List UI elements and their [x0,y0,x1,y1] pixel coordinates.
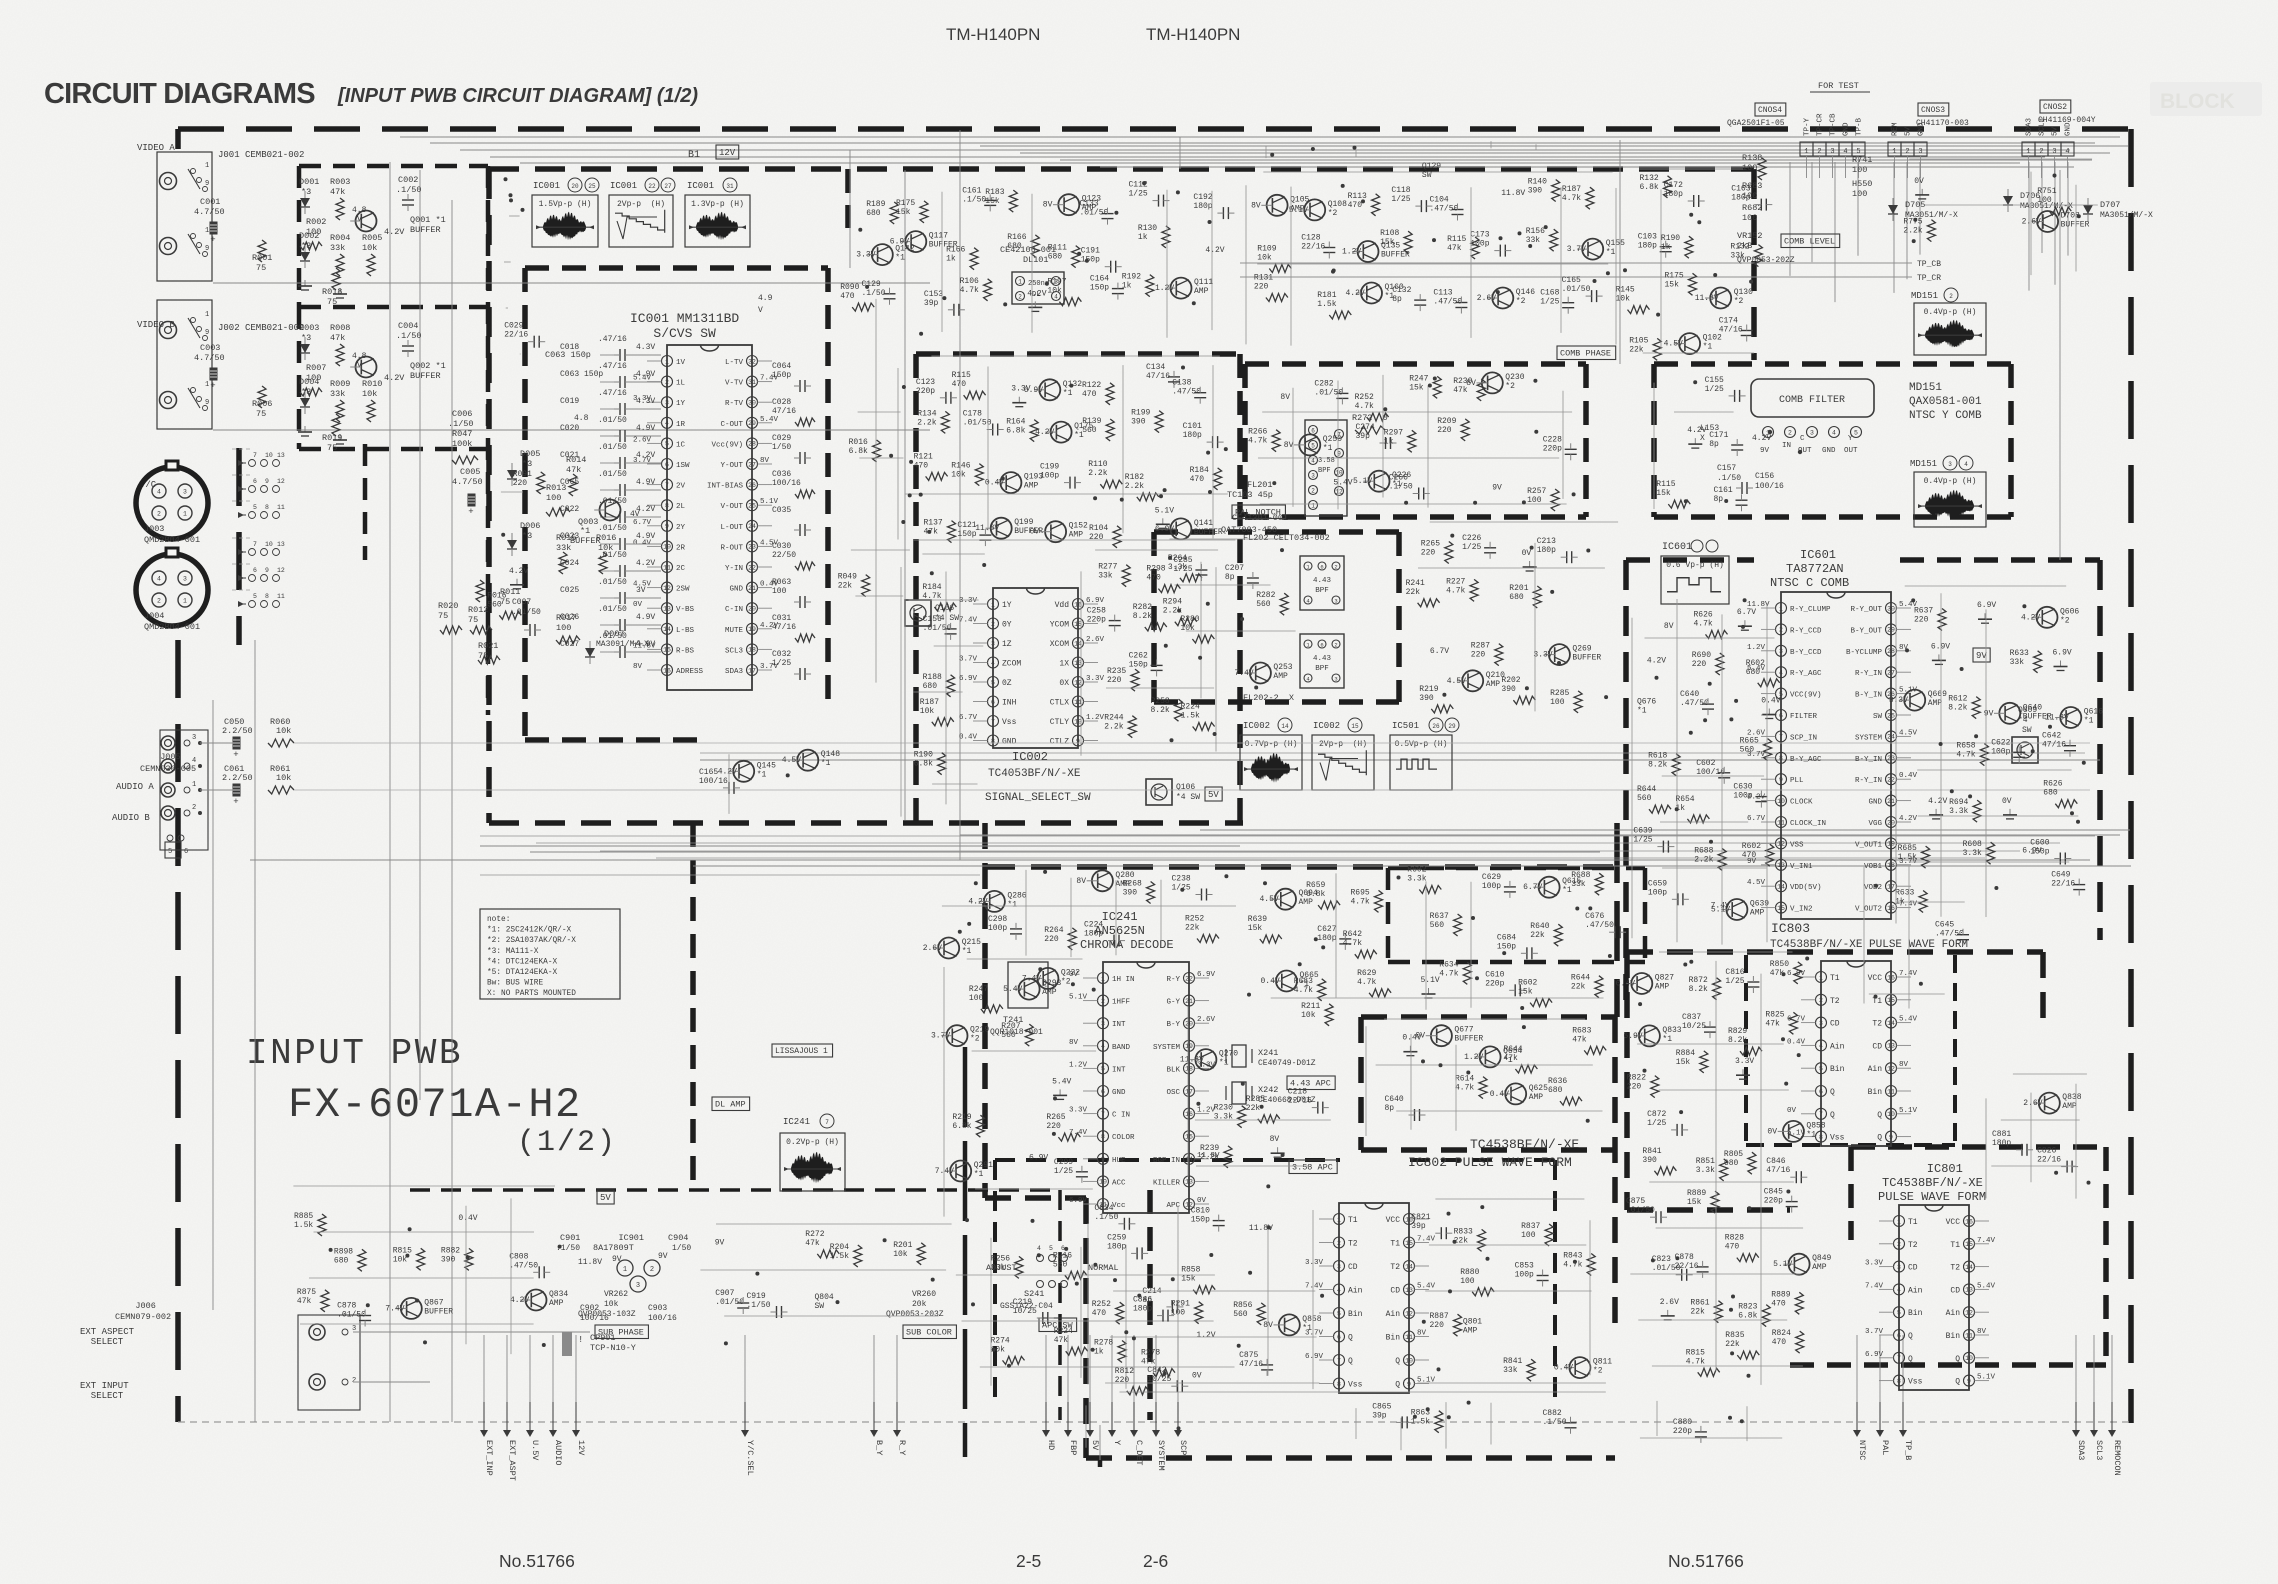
svg-text:4: 4 [2065,148,2069,156]
svg-text:Vcc(9V): Vcc(9V) [711,441,743,449]
svg-text:4.5V: 4.5V [1747,879,1766,887]
svg-text:R131: R131 [1254,274,1273,283]
svg-text:4.5V: 4.5V [1447,677,1466,686]
svg-text:2Y: 2Y [676,524,686,532]
svg-text:Q: Q [1395,1381,1400,1390]
svg-text:R137: R137 [924,519,943,528]
svg-text:10k: 10k [362,389,377,399]
svg-text:75: 75 [256,263,266,273]
svg-text:6: 6 [1311,427,1315,434]
svg-text:8.2k: 8.2k [1648,761,1667,770]
svg-text:4.5V: 4.5V [782,756,801,765]
svg-text:4.9V: 4.9V [636,613,655,622]
svg-text:C002: C002 [398,175,418,185]
svg-text:100: 100 [1852,189,1867,199]
svg-text:4.7/50: 4.7/50 [194,353,225,363]
svg-text:680: 680 [1548,1086,1563,1095]
svg-text:MD151: MD151 [1911,291,1938,301]
svg-text:CLOCK: CLOCK [1790,799,1813,807]
svg-text:680: 680 [2043,789,2058,798]
svg-text:3: 3 [1819,1020,1823,1027]
svg-text:Bin: Bin [1908,1309,1923,1318]
svg-text:2C: 2C [676,565,686,573]
svg-text:HD: HD [1046,1440,1056,1450]
svg-text:R297: R297 [1384,428,1403,437]
svg-text:19: 19 [1887,841,1895,848]
svg-text:5.4V: 5.4V [1052,1077,1071,1086]
svg-text:5.4V: 5.4V [1003,985,1022,994]
svg-text:AUDIO A: AUDIO A [116,782,154,792]
svg-text:C640: C640 [1385,1095,1404,1104]
svg-text:3.7V: 3.7V [1567,245,1586,254]
svg-text:.01/50: .01/50 [1562,285,1591,294]
svg-text:8.2k: 8.2k [1689,985,1708,994]
svg-text:8: 8 [665,503,669,510]
svg-text:D002: D002 [299,231,319,241]
svg-text:22k: 22k [1406,588,1421,597]
svg-text:8V: 8V [1251,201,1261,210]
svg-text:+: + [233,750,238,760]
svg-text:75: 75 [468,615,478,625]
svg-text:R775: R775 [1903,218,1922,227]
svg-text:OSC: OSC [1166,1089,1180,1097]
svg-text:Vdd: Vdd [1055,601,1070,610]
svg-text:.47/50: .47/50 [1585,921,1614,930]
svg-text:R121: R121 [914,452,933,461]
svg-text:Q838: Q838 [2062,1093,2081,1102]
svg-text:R166: R166 [1007,233,1026,242]
svg-text:29: 29 [1887,627,1895,634]
svg-text:11.8V: 11.8V [2045,714,2069,723]
svg-text:Q606: Q606 [2060,607,2079,616]
svg-text:Q117: Q117 [929,232,948,241]
svg-text:1: 1 [1892,148,1896,156]
svg-text:7: 7 [665,482,669,489]
svg-text:R889: R889 [1687,1189,1706,1198]
svg-text:*2: *2 [1328,209,1338,218]
svg-text:Q: Q [1395,1357,1400,1366]
svg-text:R252: R252 [1092,1300,1111,1309]
svg-text:3.7V: 3.7V [959,656,978,664]
svg-text:IC002: IC002 [1313,721,1340,731]
svg-text:R272: R272 [805,1230,824,1239]
svg-text:R614: R614 [1455,1075,1474,1084]
svg-text:R007: R007 [306,363,326,373]
svg-text:1.5k: 1.5k [1898,853,1917,862]
svg-text:C659: C659 [1648,879,1667,888]
svg-text:C132: C132 [1392,286,1411,295]
svg-text:2.6V: 2.6V [1086,636,1105,644]
svg-text:R751: R751 [2037,187,2056,196]
svg-text:Q834: Q834 [549,1290,568,1299]
svg-text:R644: R644 [1571,974,1590,983]
svg-text:C006: C006 [452,409,472,419]
svg-text:2-5: 2-5 [1016,1551,1041,1571]
svg-text:R002: R002 [306,217,326,227]
svg-text:No.51766: No.51766 [499,1551,575,1571]
svg-text:100: 100 [969,994,984,1003]
svg-text:*3: *3 [301,187,311,197]
svg-text:KILLER: KILLER [1153,1179,1181,1187]
svg-text:8V: 8V [1076,877,1086,886]
svg-text:6.9V: 6.9V [1155,525,1174,534]
svg-text:FOR TEST: FOR TEST [1818,81,1859,91]
svg-text:R268: R268 [1123,880,1142,889]
svg-text:CTLY: CTLY [1050,718,1069,727]
svg-text:R047: R047 [452,429,472,439]
svg-text:12: 12 [1887,1066,1895,1073]
svg-text:Q215: Q215 [962,938,981,947]
svg-text:AUDIO: AUDIO [553,1440,563,1466]
svg-text:4.2V: 4.2V [1647,657,1666,666]
svg-text:C872: C872 [1647,1110,1666,1119]
svg-text:15: 15 [1887,997,1895,1004]
svg-text:R841: R841 [1503,1357,1522,1366]
svg-text:C063 150p: C063 150p [545,350,591,360]
svg-text:22: 22 [748,564,756,571]
svg-text:IC801: IC801 [1898,1162,1963,1176]
svg-text:OUT: OUT [1798,447,1812,455]
svg-text:SDA3: SDA3 [2076,1440,2086,1460]
svg-text:3.3V: 3.3V [1865,1260,1884,1268]
svg-text:R602: R602 [1407,866,1426,875]
svg-text:R694: R694 [1949,798,1968,807]
svg-text:4.2V: 4.2V [1205,246,1224,255]
svg-text:75: 75 [327,297,337,307]
svg-text:33k: 33k [991,1263,1006,1272]
svg-text:15k: 15k [1409,383,1424,392]
svg-text:100: 100 [556,623,571,633]
svg-text:Q801: Q801 [1463,1318,1482,1327]
svg-text:R629: R629 [1357,969,1376,978]
svg-text:100: 100 [1460,1277,1475,1286]
svg-text:7.4V: 7.4V [1022,974,1041,983]
svg-text:3.3k: 3.3k [1407,875,1426,884]
svg-text:10: 10 [1335,469,1343,476]
svg-text:4.7k: 4.7k [1355,402,1374,411]
svg-text:MA3051/M/-X: MA3051/M/-X [2100,211,2153,220]
svg-text:39p: 39p [924,299,939,308]
svg-text:COMB LEVEL: COMB LEVEL [1784,237,1835,247]
svg-text:4V: 4V [630,510,640,519]
svg-text:R188: R188 [923,673,942,682]
svg-text:33k: 33k [2010,658,2025,667]
svg-text:INH: INH [1002,699,1017,708]
svg-text:R829: R829 [1728,1027,1747,1036]
svg-text:.47/50: .47/50 [509,1261,538,1270]
svg-text:14: 14 [663,626,671,633]
svg-text:4.7k: 4.7k [1248,437,1267,446]
svg-text:5.4V: 5.4V [1977,1282,1996,1290]
svg-text:R282: R282 [1133,603,1152,612]
svg-text:R685: R685 [1898,844,1917,853]
svg-text:R021: R021 [478,641,498,651]
svg-text:.01/50: .01/50 [1626,1206,1655,1215]
svg-text:HUE: HUE [1112,1157,1126,1165]
svg-text:26: 26 [748,482,756,489]
svg-text:AMP: AMP [1486,680,1501,689]
svg-text:9: 9 [1889,1134,1893,1141]
svg-text:470: 470 [1771,1299,1786,1308]
svg-text:3: 3 [1311,472,1315,479]
svg-text:5.1V: 5.1V [1711,906,1730,915]
svg-text:CEMN079-002: CEMN079-002 [115,1312,171,1322]
svg-text:15k: 15k [1676,1058,1691,1067]
svg-text:VOB1: VOB1 [1864,863,1883,871]
svg-text:9: 9 [1407,1381,1411,1388]
svg-text:EXT INPUT: EXT INPUT [80,1381,129,1391]
svg-text:.47/16: .47/16 [598,335,627,344]
svg-text:470: 470 [1742,851,1757,860]
svg-text:+: + [233,797,238,807]
svg-text:Q152: Q152 [1069,522,1088,531]
svg-text:220: 220 [513,479,528,488]
svg-text:1/50: 1/50 [672,1244,691,1253]
svg-text:R-Y: R-Y [1166,976,1180,984]
svg-text:470: 470 [1725,1243,1740,1252]
svg-text:R683: R683 [1572,1026,1591,1035]
svg-text:EXT_INP: EXT_INP [484,1440,494,1476]
svg-text:2: 2 [1101,998,1105,1005]
svg-text:R872: R872 [1689,976,1708,985]
svg-text:IC901: IC901 [593,1233,644,1243]
svg-text:GND: GND [1002,738,1017,747]
svg-text:R202: R202 [1501,676,1520,685]
svg-text:6.9V: 6.9V [1024,386,1043,395]
svg-text:2: 2 [1018,293,1022,300]
svg-text:CNOS2: CNOS2 [2043,103,2067,112]
svg-text:1H IN: 1H IN [1112,976,1135,984]
svg-text:4.2V: 4.2V [718,767,737,776]
svg-text:4.43: 4.43 [1313,577,1332,585]
svg-text:47k: 47k [805,1239,820,1248]
svg-text:23: 23 [748,544,756,551]
svg-text:4.7k: 4.7k [1694,619,1713,628]
svg-text:150p: 150p [957,530,976,539]
svg-text:C019: C019 [560,397,579,406]
svg-text:C853: C853 [1515,1262,1534,1271]
svg-text:C610: C610 [1485,970,1504,979]
svg-text:6: 6 [1320,641,1323,648]
svg-text:R224: R224 [1181,703,1200,712]
svg-text:6.9V: 6.9V [890,238,909,247]
svg-text:7: 7 [1897,1355,1901,1362]
svg-text:28: 28 [748,441,756,448]
svg-text:6.8k: 6.8k [1738,1312,1757,1321]
svg-text:R-Y_OUT: R-Y_OUT [1850,606,1882,614]
svg-text:8.2k: 8.2k [1133,612,1152,621]
svg-text:220: 220 [1430,1321,1445,1330]
svg-text:1Y: 1Y [676,400,686,408]
svg-text:4: 4 [1101,1043,1105,1050]
svg-text:19: 19 [1185,1043,1193,1050]
svg-text:C123: C123 [916,378,935,387]
svg-text:1.5k: 1.5k [1317,300,1336,309]
svg-text:3.7V: 3.7V [1865,1328,1884,1336]
svg-text:D001: D001 [299,177,319,187]
svg-text:100p: 100p [1648,888,1667,897]
svg-text:B-Y_IN: B-Y_IN [1855,692,1882,700]
svg-text:CHROMA DECODE: CHROMA DECODE [1080,938,1174,952]
svg-text:R695: R695 [1351,888,1370,897]
svg-text:V_IN2: V_IN2 [1790,906,1813,914]
svg-text:4.2V: 4.2V [968,897,987,906]
svg-text:.1/50: .1/50 [396,331,422,341]
svg-text:4.7k: 4.7k [1351,897,1370,906]
svg-text:FILTER: FILTER [1790,713,1818,721]
svg-text:R634: R634 [1439,960,1458,969]
svg-text:5.1V: 5.1V [1289,206,1308,215]
svg-text:R016: R016 [849,438,868,447]
svg-text:5: 5 [1337,1310,1341,1317]
svg-text:11: 11 [1405,1334,1413,1341]
svg-text:560: 560 [1256,600,1271,609]
svg-text:C821: C821 [1411,1213,1430,1222]
svg-text:VCC(9V): VCC(9V) [1790,692,1822,700]
svg-text:0.4V: 0.4V [959,734,978,742]
svg-text:6.8k: 6.8k [914,760,933,769]
svg-text:*1: *1 [1302,1324,1312,1333]
svg-text:9: 9 [265,478,269,485]
svg-text:R182: R182 [1125,473,1144,482]
svg-text:100/16: 100/16 [699,777,728,786]
svg-text:7: 7 [1819,1111,1823,1118]
svg-text:R192: R192 [1122,273,1141,282]
svg-text:COMB PHASE: COMB PHASE [1560,349,1611,359]
svg-text:R132: R132 [1640,174,1659,183]
svg-text:R184: R184 [922,583,941,592]
svg-text:BUFFER: BUFFER [410,225,441,235]
svg-text:Q827: Q827 [1655,974,1674,983]
svg-text:22/16: 22/16 [2037,1156,2061,1165]
svg-text:Y: Y [1848,435,1853,443]
svg-text:Q106: Q106 [1176,783,1195,792]
svg-text:2SW: 2SW [676,586,690,594]
svg-text:3: 3 [636,1282,640,1290]
svg-text:2: 2 [157,598,161,605]
svg-text:.01/50: .01/50 [598,524,627,533]
svg-text:QVP0053-203Z: QVP0053-203Z [886,1310,944,1319]
svg-text:Q155: Q155 [1606,239,1625,248]
svg-text:[INPUT PWB CIRCUIT DIAGRAM] (1: [INPUT PWB CIRCUIT DIAGRAM] (1/2) [337,85,698,107]
svg-text:3: 3 [1337,1263,1341,1270]
svg-text:R264: R264 [1044,926,1063,935]
svg-text:J003: J003 [144,524,164,534]
svg-text:C630: C630 [1733,783,1752,792]
svg-text:D705: D705 [1905,200,1925,210]
svg-text:11.8V: 11.8V [1695,294,1719,303]
svg-text:150p: 150p [1129,660,1148,669]
svg-text:1k: 1k [1138,233,1148,242]
svg-text:3: 3 [1779,648,1783,655]
svg-text:14: 14 [1777,884,1785,891]
svg-text:0V: 0V [2002,797,2012,806]
svg-text:R887: R887 [1430,1312,1449,1321]
svg-text:*1: *1 [1606,248,1616,257]
svg-text:100p: 100p [1040,472,1059,481]
svg-text:220: 220 [1471,651,1486,660]
svg-text:C028: C028 [772,398,791,407]
svg-text:47/16: 47/16 [2042,741,2066,750]
svg-text:TC103 45p: TC103 45p [1227,490,1273,500]
svg-text:C165: C165 [699,768,718,777]
svg-text:*3: *3 [522,459,532,469]
svg-text:SW: SW [1873,713,1883,721]
svg-text:D005: D005 [520,449,540,459]
svg-text:Vcc: Vcc [1112,1202,1126,1210]
svg-text:R239: R239 [1200,1144,1219,1153]
svg-text:C156: C156 [1755,472,1774,481]
svg-text:*3: *3 [522,531,532,541]
svg-text:2.2/50: 2.2/50 [222,773,253,783]
svg-text:12: 12 [663,585,671,592]
svg-text:0.4V: 0.4V [1899,772,1918,780]
svg-text:1/50: 1/50 [772,443,791,452]
svg-text:R833: R833 [1454,1227,1473,1236]
svg-text:20: 20 [748,606,756,613]
svg-text:32: 32 [748,358,756,365]
svg-text:5: 5 [1101,1066,1105,1073]
svg-text:B-Y_CCD: B-Y_CCD [1790,649,1822,657]
svg-text:5.4V: 5.4V [1899,1016,1918,1024]
svg-text:*1: *1 [821,759,831,768]
svg-text:100: 100 [772,587,787,596]
svg-text:13: 13 [1965,1287,1973,1294]
svg-text:C007: C007 [512,598,531,607]
svg-text:R016: R016 [487,591,506,600]
svg-text:TP-CB: TP-CB [1830,113,1838,136]
svg-text:1HFF: 1HFF [1112,999,1130,1007]
svg-text:C627: C627 [1317,925,1336,934]
svg-text:11: 11 [1965,1332,1973,1339]
svg-text:10k: 10k [951,471,966,480]
svg-text:DL101: DL101 [1023,255,1049,265]
svg-text:R-BS: R-BS [676,647,695,655]
svg-text:R280: R280 [1180,615,1199,624]
svg-text:33k: 33k [1730,252,1745,261]
svg-text:15k: 15k [1656,489,1671,498]
svg-text:220p: 220p [1764,1197,1783,1206]
svg-text:2: 2 [1897,1241,1901,1248]
svg-text:9: 9 [205,399,209,407]
svg-text:B-Y_IN: B-Y_IN [1855,756,1882,764]
svg-text:R-Y_IN: R-Y_IN [1855,777,1882,785]
svg-text:V_OUT2: V_OUT2 [1855,906,1882,914]
svg-text:220: 220 [1107,676,1122,685]
svg-text:220p: 220p [916,387,935,396]
svg-text:R277: R277 [1098,563,1117,572]
svg-text:220: 220 [1254,283,1269,292]
svg-text:R146: R146 [951,462,970,471]
svg-text:Q250: Q250 [1323,435,1342,444]
svg-text:AMP: AMP [1928,699,1943,708]
svg-text:2: 2 [1337,1240,1341,1247]
svg-text:R822: R822 [1627,1074,1646,1083]
svg-text:39p: 39p [1372,1411,1387,1420]
svg-text:SELECT: SELECT [80,1337,124,1347]
svg-text:0Z: 0Z [1002,679,1012,688]
svg-text:TC4538BF/N/-XE PULSE WAVE FORM: TC4538BF/N/-XE PULSE WAVE FORM [1770,939,1968,951]
svg-text:8p: 8p [1225,573,1235,582]
svg-text:L-OUT: L-OUT [720,524,743,532]
svg-text:R224: R224 [1054,1327,1073,1336]
svg-text:C837: C837 [1682,1013,1701,1022]
svg-text:22: 22 [1185,975,1193,982]
svg-text:5.1V: 5.1V [1421,976,1440,985]
svg-text:C003: C003 [200,343,220,353]
svg-text:1C: 1C [676,441,686,449]
svg-text:R278: R278 [1141,1349,1160,1358]
